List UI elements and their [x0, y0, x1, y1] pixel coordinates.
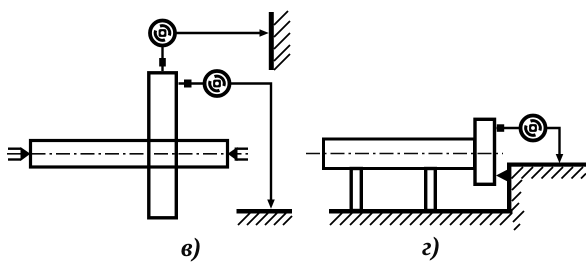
- wire from I1 to wall with arrowhead: [175, 29, 269, 37]
- support V-block 2 (right figure): [426, 169, 436, 211]
- shaft (left figure): [31, 141, 228, 168]
- ground block (right figure, lower level): [329, 209, 513, 225]
- centerline (shaft axis, left figure): [7, 153, 248, 155]
- indicator I1 (top, left figure): [150, 21, 175, 46]
- wire from I2 to disc with arrowhead: [179, 80, 204, 88]
- wire from I3 right then down to step with arrowhead: [547, 128, 563, 163]
- indicator I3 (right figure): [521, 116, 546, 141]
- svg-text:в): в): [181, 233, 201, 262]
- disc / collar (right figure): [475, 119, 495, 184]
- centerline (shaft axis, right figure): [306, 153, 503, 155]
- shaft (right figure): [324, 139, 475, 169]
- wire from I2 right then down to ground with arrowhead: [231, 84, 275, 209]
- support V-block 1 (right figure): [351, 169, 361, 211]
- disc (left figure): [149, 73, 177, 218]
- left center support symbol: [8, 148, 30, 160]
- ground block (left figure): [237, 209, 293, 225]
- indicator I2 (side, left figure): [205, 71, 230, 96]
- wire from I3 to disc with arrowhead: [497, 124, 520, 132]
- datum wedge arrow at disc lower right: [496, 169, 509, 182]
- right center support symbol: [229, 148, 249, 161]
- wall (fixed reference, top right of left figure): [271, 11, 290, 70]
- svg-text:г): г): [422, 232, 440, 261]
- step block (raised ground, right figure): [507, 163, 586, 231]
- stem wire from I1 down to disc with arrowhead: [159, 45, 166, 71]
